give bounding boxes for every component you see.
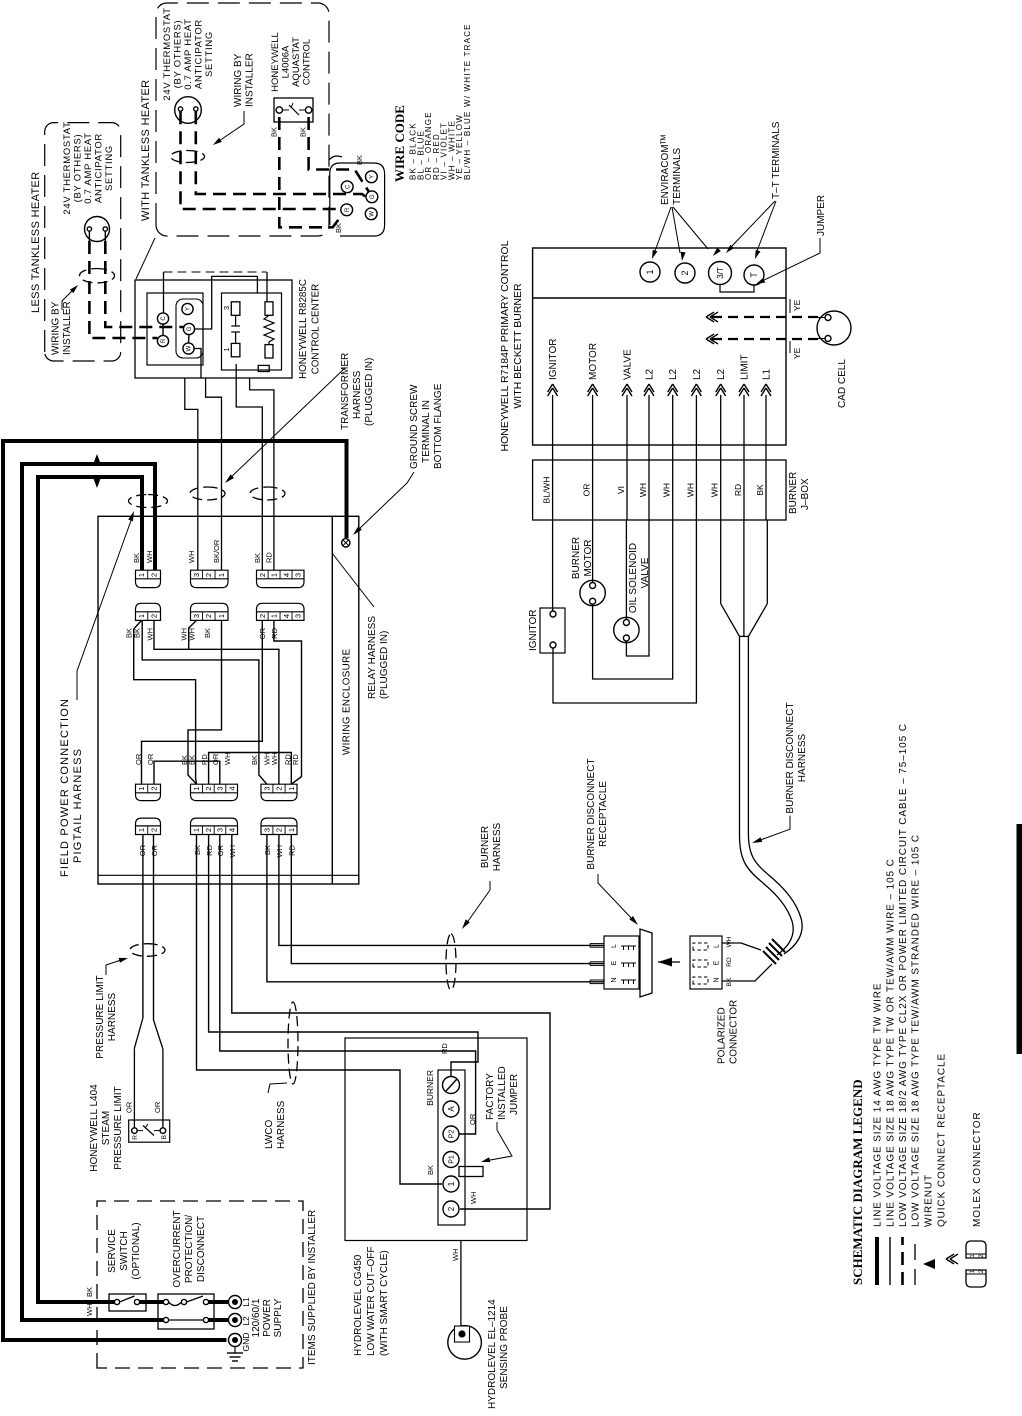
wire row IGNITOR 552.6	[552, 395, 554, 520]
Honeywell R8285C outer box	[135, 280, 292, 378]
wire row LIMIT 744	[743, 395, 745, 520]
svg-text:2: 2	[258, 614, 267, 618]
svg-text:1: 1	[192, 786, 201, 790]
molex connector A1 (relay plug 1 2)	[136, 603, 161, 620]
wire jumper H2 RD B2.2<->C2.1	[209, 753, 292, 785]
leader wiring by installer LESS	[62, 287, 76, 310]
svg-text:L2: L2	[716, 368, 727, 380]
svg-text:1: 1	[447, 1181, 456, 1186]
items supplied dashed box	[97, 1201, 303, 1368]
svg-text:BK: BK	[426, 1165, 435, 1175]
wire BK to funnel	[766, 520, 768, 604]
svg-text:HONEYWELL L404: HONEYWELL L404	[89, 1084, 100, 1172]
svg-text:VI: VI	[616, 486, 626, 494]
svg-text:N: N	[611, 977, 618, 982]
terminal R (L404)	[132, 1128, 138, 1134]
svg-text:LWCO: LWCO	[264, 1120, 275, 1149]
svg-text:MOTOR: MOTOR	[588, 343, 599, 380]
svg-text:INSTALLER: INSTALLER	[62, 301, 73, 355]
svg-text:1: 1	[192, 828, 201, 832]
svg-text:LOW WATER CUT–OFF: LOW WATER CUT–OFF	[366, 1247, 377, 1356]
leader disconnect harness	[755, 816, 790, 842]
svg-text:OR: OR	[468, 1113, 477, 1125]
wire BK (L1) line-voltage run	[209, 1300, 229, 1304]
wire OR pressure-limit pair	[142, 835, 144, 1019]
svg-text:BK: BK	[85, 1287, 94, 1297]
wire VI to valve	[625, 520, 627, 620]
wire row L2 672.7	[672, 395, 674, 520]
svg-text:2: 2	[204, 614, 213, 618]
svg-text:2: 2	[258, 573, 267, 577]
svg-text:WH: WH	[146, 628, 155, 641]
svg-text:CONTROL CENTER: CONTROL CENTER	[311, 284, 322, 375]
svg-text:(BY OTHERS): (BY OTHERS)	[173, 20, 184, 89]
aquastat terminals	[276, 107, 282, 113]
svg-text:3: 3	[294, 614, 303, 618]
svg-text:WH: WH	[685, 483, 695, 497]
molex connector B0 (pigtail 3 2 1)	[191, 570, 229, 587]
svg-text:ENVIRACOMᵀᴹ: ENVIRACOMᵀᴹ	[660, 135, 671, 205]
wire row MOTOR 592.6	[592, 395, 594, 520]
label LESS TANKLESS HEATER	[24, 166, 41, 316]
svg-text:MOLEX CONNECTOR: MOLEX CONNECTOR	[972, 1111, 983, 1227]
svg-text:BK: BK	[203, 628, 212, 638]
wire row L1 766	[765, 395, 767, 520]
svg-text:CONTROL: CONTROL	[302, 39, 313, 85]
terminal 3/T	[709, 262, 732, 285]
svg-text:E: E	[714, 960, 721, 965]
leaders enviracom	[655, 207, 671, 251]
svg-text:2: 2	[204, 828, 213, 832]
terminal 2	[443, 1201, 459, 1217]
terminal P2	[443, 1126, 459, 1142]
svg-text:FIELD POWER CONNECTION: FIELD POWER CONNECTION	[59, 698, 71, 877]
svg-text:JUMPER: JUMPER	[509, 1074, 520, 1115]
svg-text:1: 1	[217, 573, 226, 577]
svg-text:INSTALLER: INSTALLER	[245, 53, 256, 107]
wire G-W stub	[188, 335, 191, 343]
svg-text:BURNER: BURNER	[425, 1070, 435, 1106]
svg-text:BK: BK	[250, 755, 259, 765]
svg-text:24V THERMOSTAT: 24V THERMOSTAT	[62, 121, 73, 214]
harness ellipse burner	[446, 934, 456, 990]
wire dashed aquastat left to R2	[279, 117, 342, 227]
wire ignitor return to L2	[553, 520, 696, 703]
svg-text:T–T TERMINALS: T–T TERMINALS	[771, 121, 782, 199]
svg-text:B: B	[161, 1135, 168, 1139]
svg-text:2: 2	[204, 573, 213, 577]
Honeywell R7184P box	[533, 248, 786, 445]
svg-text:HARNESS: HARNESS	[797, 734, 808, 783]
wire C-terminal dashed link to transformer	[163, 272, 165, 313]
svg-text:WIRING ENCLOSURE: WIRING ENCLOSURE	[342, 648, 353, 755]
leaders T-T	[732, 201, 775, 246]
svg-text:RD: RD	[726, 957, 733, 967]
neck box to terminal block	[329, 156, 342, 160]
svg-text:YE: YE	[792, 299, 802, 311]
svg-text:2: 2	[447, 1206, 456, 1211]
terminal 1	[640, 262, 660, 282]
thermostat (LESS)	[85, 217, 110, 242]
svg-text:2: 2	[275, 786, 284, 790]
ground symbol	[234, 1347, 236, 1354]
wire web W7 RD C1.1->C2.1	[274, 620, 302, 784]
svg-text:WH: WH	[726, 936, 733, 947]
svg-text:2: 2	[204, 786, 213, 790]
legend line sample 890	[889, 1237, 891, 1285]
svg-text:IGNITOR: IGNITOR	[548, 339, 559, 380]
LESS TANKLESS HEATER box	[45, 123, 121, 361]
svg-text:BK: BK	[193, 845, 202, 855]
svg-text:LOW VOLTAGE SIZE 18/2 AWG: LOW VOLTAGE SIZE 18/2 AWG TYPE CL2X OR P…	[898, 723, 909, 1227]
svg-text:2: 2	[150, 786, 159, 790]
svg-text:2: 2	[680, 270, 690, 275]
wire BK to LWCO terminal 1	[197, 835, 443, 1185]
svg-text:BK: BK	[334, 223, 343, 233]
svg-text:LESS TANKLESS HEATER: LESS TANKLESS HEATER	[30, 172, 42, 314]
leader field power	[77, 515, 133, 700]
svg-text:L2: L2	[241, 1316, 251, 1326]
harness ellipse LESS thermostat	[80, 268, 115, 282]
svg-text:RD: RD	[200, 754, 209, 765]
burner J-box	[533, 460, 786, 520]
wiring enclosure box	[98, 516, 359, 884]
funnel shape	[721, 604, 740, 637]
svg-text:SCHEMATIC DIAGRAM LEGEND: SCHEMATIC DIAGRAM LEGEND	[850, 1079, 865, 1285]
svg-text:PRESSURE LIMIT: PRESSURE LIMIT	[95, 975, 106, 1058]
terminal B (L404)	[160, 1128, 166, 1134]
svg-text:WITH BECKETT BURNER: WITH BECKETT BURNER	[512, 283, 524, 409]
svg-text:W: W	[369, 211, 375, 217]
Honeywell L4006A aquastat box	[274, 98, 313, 122]
leader factory jumper	[485, 1122, 512, 1161]
wire YE dashed upper	[712, 316, 824, 318]
terminal A	[443, 1101, 459, 1117]
harness ellipse lwco	[288, 1002, 298, 1084]
R8285C terminal inner box	[147, 293, 203, 365]
svg-text:SETTING: SETTING	[104, 145, 115, 191]
wire WH to funnel	[720, 520, 722, 604]
wire dashed W to R	[89, 241, 157, 338]
svg-text:4: 4	[227, 786, 236, 790]
svg-text:TRANSFORMER: TRANSFORMER	[340, 353, 351, 430]
pressure switch glyph	[137, 1130, 143, 1132]
wire BK to receptacle N	[267, 835, 604, 982]
wire R-C stub	[162, 324, 164, 335]
R8285C terminal rounded subrect	[176, 299, 203, 358]
polarized connector plug body	[722, 943, 772, 981]
svg-text:IGNITOR: IGNITOR	[528, 610, 539, 651]
svg-text:4: 4	[227, 828, 236, 832]
svg-text:J–BOX: J–BOX	[800, 478, 811, 510]
wire web W2 BK A1.1->C2.3	[142, 620, 267, 784]
wire OR pair splay	[134, 1018, 143, 1048]
svg-text:FACTORY: FACTORY	[485, 1073, 496, 1120]
wire web W3 WH A1.2->C2.2	[154, 620, 279, 784]
molex connector B1 (relay plug 3 2 1)	[191, 603, 229, 620]
svg-text:L: L	[714, 944, 721, 948]
LWCO terminal strip	[438, 1070, 465, 1225]
svg-text:A: A	[447, 1106, 456, 1112]
jumper bracket	[720, 285, 754, 293]
wire dashed thermostat right to G2	[196, 111, 366, 197]
cable ribs	[763, 939, 785, 964]
svg-text:L1: L1	[241, 1297, 251, 1307]
wire D R8285C to C0.1	[250, 378, 274, 570]
svg-text:3: 3	[192, 573, 201, 577]
svg-text:1: 1	[137, 573, 146, 577]
wire WH to LWCO terminal 2	[232, 835, 550, 1210]
wire RD to LWCO burner screw	[209, 835, 478, 1077]
terminal 2	[675, 263, 695, 283]
transformer bottom tab	[258, 365, 269, 371]
wire BL/WH to ignitor	[552, 520, 554, 611]
terminal Y2	[366, 171, 378, 183]
wirenut on BK run	[93, 454, 102, 466]
wire row L2 649	[648, 395, 650, 520]
receptacle prongs	[590, 983, 604, 985]
Hydrolevel CG450 LWCO box	[345, 1038, 527, 1241]
molex connector A2 (relay 1 2)	[136, 784, 161, 800]
svg-text:R: R	[132, 1135, 139, 1140]
svg-text:WH: WH	[145, 551, 154, 564]
molex connector B2 (relay 1 2 3 4)	[191, 784, 238, 800]
svg-text:WH: WH	[469, 1192, 478, 1205]
svg-text:ANTICIPATOR: ANTICIPATOR	[194, 19, 205, 89]
molex connector A0 (field power pigtail 1 2)	[136, 570, 161, 587]
molex connector B3 (harness 1 2 3 4)	[191, 818, 238, 834]
svg-text:120/60/1: 120/60/1	[251, 1298, 262, 1337]
legend MOLEX CONNECTOR icons	[966, 1270, 986, 1287]
svg-text:CAD CELL: CAD CELL	[837, 359, 848, 408]
svg-text:G: G	[187, 326, 193, 331]
svg-text:OR: OR	[211, 753, 220, 765]
svg-text:BK: BK	[355, 155, 364, 165]
svg-text:R: R	[345, 207, 351, 212]
svg-text:WIRING BY: WIRING BY	[51, 301, 62, 355]
harness ellipse pressure limit	[130, 944, 165, 957]
svg-text:1: 1	[137, 786, 146, 790]
svg-text:HONEYWELL R7184P PRIMARY CONTR: HONEYWELL R7184P PRIMARY CONTROL	[499, 240, 511, 451]
svg-text:BK/OR: BK/OR	[212, 539, 221, 563]
svg-text:LIMIT: LIMIT	[740, 354, 751, 380]
leader burner harness	[466, 881, 490, 924]
wire RD to receptacle E	[291, 835, 604, 964]
svg-text:1: 1	[645, 269, 655, 274]
svg-text:BL/WH: BL/WH	[542, 477, 552, 504]
svg-text:BK: BK	[726, 977, 733, 986]
svg-text:LINE VOLTAGE SIZE 14 AWG: LINE VOLTAGE SIZE 14 AWG TYPE TW WIRE	[873, 983, 884, 1227]
leader receptacle	[598, 874, 634, 921]
svg-text:OR: OR	[125, 1101, 134, 1113]
leader ground screw	[357, 472, 414, 531]
svg-text:OR: OR	[150, 844, 159, 856]
receptacle pin slots	[621, 979, 636, 981]
wire YE dashed lower	[712, 338, 824, 340]
svg-text:C: C	[161, 316, 167, 321]
svg-text:CONNECTOR: CONNECTOR	[729, 1000, 740, 1064]
harness ellipse transformer C	[250, 487, 285, 500]
terminal G2	[366, 191, 378, 203]
wire C R8285C transformer to C0.2	[236, 364, 262, 570]
factory jumper rect	[459, 1167, 483, 1177]
svg-text:C: C	[345, 184, 351, 189]
svg-text:1: 1	[222, 347, 231, 351]
wire WH to receptacle L	[279, 835, 604, 946]
wire valve return to L2	[626, 520, 649, 656]
svg-text:HYDROLEVEL EL–1214: HYDROLEVEL EL–1214	[487, 1299, 498, 1409]
svg-text:BURNER: BURNER	[571, 537, 582, 579]
wire motor return to L2	[593, 520, 673, 679]
svg-text:0.7 AMP HEAT: 0.7 AMP HEAT	[83, 132, 94, 203]
svg-text:WITH TANKLESS HEATER: WITH TANKLESS HEATER	[140, 80, 152, 221]
svg-text:1: 1	[137, 828, 146, 832]
Honeywell L404 box	[129, 1120, 170, 1142]
svg-text:WIRE CODE: WIRE CODE	[392, 105, 407, 182]
svg-text:BK: BK	[270, 127, 279, 137]
harness ellipse WITH thermostat	[171, 151, 205, 163]
terminal GND	[229, 1334, 242, 1347]
svg-text:E: E	[611, 960, 618, 965]
svg-text:SUPPLY: SUPPLY	[273, 1298, 284, 1337]
svg-text:SWITCH: SWITCH	[119, 1231, 130, 1270]
wire WH (L2) line-voltage run	[209, 1318, 229, 1322]
wire web W5 BK B1.1->B2.1	[188, 620, 222, 784]
svg-text:3: 3	[263, 828, 272, 832]
legend QUICK CONNECT RECEPTACLE	[946, 1254, 958, 1264]
svg-text:N: N	[714, 977, 721, 982]
screw terminal BURNER	[443, 1077, 460, 1094]
svg-text:L4006A: L4006A	[281, 45, 292, 78]
wire RD to funnel	[743, 520, 745, 636]
ignitor box	[540, 608, 565, 653]
svg-text:HARNESS: HARNESS	[352, 370, 363, 419]
line box corner to R8285C	[136, 238, 155, 279]
svg-text:3: 3	[294, 573, 303, 577]
svg-text:L2: L2	[668, 368, 679, 380]
svg-text:HONEYWELL: HONEYWELL	[270, 32, 281, 92]
terminal C	[157, 313, 168, 324]
wire row VALVE 627	[626, 395, 628, 520]
svg-text:24V THERMOSTAT: 24V THERMOSTAT	[162, 7, 173, 100]
svg-text:1: 1	[270, 573, 279, 577]
svg-text:2: 2	[150, 573, 159, 577]
receptacle flange	[640, 929, 652, 997]
wire dashed to G	[105, 241, 183, 327]
legend WIRENUT	[923, 1259, 935, 1269]
terminal L1	[229, 1296, 242, 1309]
svg-text:RD: RD	[265, 552, 274, 563]
wire WH to sensing probe	[460, 1241, 462, 1326]
svg-text:3: 3	[192, 614, 201, 618]
svg-text:G: G	[370, 194, 376, 199]
svg-text:T: T	[749, 272, 759, 278]
svg-text:RELAY HARNESS: RELAY HARNESS	[367, 616, 378, 699]
scan artifact bar	[1017, 824, 1022, 1054]
transformer box	[222, 293, 282, 370]
svg-text:WH: WH	[638, 483, 648, 497]
svg-text:3/T: 3/T	[716, 267, 725, 279]
svg-text:3: 3	[263, 786, 272, 790]
svg-text:R: R	[161, 338, 167, 343]
harness ellipse transformer B	[190, 487, 225, 500]
terminal C2	[341, 181, 353, 193]
terminal G	[183, 323, 194, 334]
svg-text:RD: RD	[733, 484, 743, 496]
svg-text:WIRENUT: WIRENUT	[924, 1174, 935, 1227]
svg-text:TERMINALS: TERMINALS	[672, 147, 683, 205]
wire G-link to transformer	[195, 276, 258, 329]
burner disconnect cable	[740, 636, 794, 955]
leader transformer harness	[227, 368, 346, 482]
svg-text:SETTING: SETTING	[204, 31, 215, 77]
svg-text:BK: BK	[299, 127, 308, 137]
transformer zigzag resistor	[264, 315, 274, 344]
svg-text:WIRING BY: WIRING BY	[233, 53, 244, 107]
svg-text:OR: OR	[582, 484, 592, 497]
wire A R8285C W to B0.3	[194, 349, 201, 379]
harness ellipse field power	[129, 495, 168, 508]
molex connector C3 (harness 3 2 1)	[261, 818, 297, 834]
WITH TANKLESS HEATER box	[156, 3, 329, 236]
svg-text:3: 3	[215, 828, 224, 832]
svg-text:PIGTAIL HARNESS: PIGTAIL HARNESS	[72, 748, 84, 863]
wire jumper H3 OR A2.2<->B2.3	[154, 761, 220, 784]
wire dashed aquastat right to G2	[309, 117, 369, 192]
svg-text:BURNER DISCONNECT: BURNER DISCONNECT	[785, 702, 796, 813]
svg-text:BK: BK	[755, 484, 765, 496]
svg-text:P1: P1	[449, 1155, 456, 1164]
wire web W1 BK A1.1->B2.1	[134, 620, 197, 784]
svg-text:HYDROLEVEL CG450: HYDROLEVEL CG450	[353, 1254, 364, 1356]
svg-text:AQUASTAT: AQUASTAT	[291, 37, 302, 87]
svg-text:1: 1	[137, 614, 146, 618]
svg-text:POWER: POWER	[262, 1299, 273, 1337]
svg-text:WH: WH	[710, 483, 720, 497]
svg-text:ANTICIPATOR: ANTICIPATOR	[94, 133, 105, 203]
svg-text:0.7 AMP HEAT: 0.7 AMP HEAT	[183, 18, 194, 89]
svg-text:(WITH SMART CYCLE): (WITH SMART CYCLE)	[379, 1250, 390, 1356]
aquastat terminal block box	[330, 163, 385, 236]
service switch box	[109, 1294, 146, 1311]
sensing probe	[448, 1326, 482, 1360]
leader jumper	[760, 238, 820, 282]
leader wiring by installer WITH	[216, 111, 244, 143]
overcurrent box	[158, 1294, 214, 1329]
R7184P divider	[533, 297, 786, 299]
svg-text:(PLUGGED IN): (PLUGGED IN)	[364, 358, 375, 426]
svg-text:1: 1	[270, 614, 279, 618]
terminal W	[183, 343, 194, 354]
leader relay harness	[332, 553, 374, 607]
burner motor	[580, 580, 605, 605]
svg-text:WH: WH	[451, 1249, 460, 1262]
svg-text:BOTTOM FLANGE: BOTTOM FLANGE	[433, 383, 444, 469]
wirenut on WH run	[93, 476, 102, 488]
wire OR to LWCO P2	[220, 835, 476, 1135]
wire dashed thermostat left to R2	[181, 111, 342, 209]
terminal W2	[365, 208, 377, 220]
wire OR to motor	[592, 520, 594, 583]
svg-text:JUMPER: JUMPER	[816, 195, 827, 236]
terminal L2	[229, 1314, 242, 1327]
legend line sample 902.5	[901, 1237, 904, 1285]
svg-text:2: 2	[275, 828, 284, 832]
wire web W4 WH B1.3 join	[189, 620, 197, 649]
terminal 1	[443, 1176, 459, 1192]
mate arrow	[658, 958, 672, 967]
thermostat (WITH)	[175, 97, 202, 124]
